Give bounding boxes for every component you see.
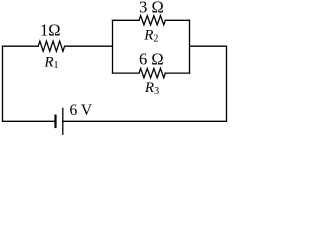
svg-text:6 V: 6 V <box>70 102 93 119</box>
svg-text:1Ω: 1Ω <box>40 20 61 39</box>
wire: top branch left segment <box>113 19 140 21</box>
wire: parallel box right vertical <box>189 20 191 73</box>
svg-text:R2: R2 <box>143 28 158 45</box>
svg-text:R3: R3 <box>144 80 159 97</box>
svg-text:3 Ω: 3 Ω <box>139 0 164 16</box>
svg-text:6 Ω: 6 Ω <box>139 50 164 69</box>
wire: bottom branch right segment <box>165 72 189 74</box>
resistor R3 <box>139 68 165 77</box>
wire: bottom rail right of battery <box>63 120 227 122</box>
wire: bottom branch left segment <box>113 72 140 74</box>
resistor R2 <box>139 16 165 25</box>
wire: top-left horizontal from left rail to R1 <box>3 45 39 47</box>
battery V1 long positive plate <box>62 108 64 134</box>
svg-text:R1: R1 <box>43 54 58 71</box>
wire: right rail vertical <box>226 46 228 121</box>
wire: R1 to parallel box left side <box>65 45 113 47</box>
battery V1 short negative plate <box>54 116 56 127</box>
wire: box right side to right rail <box>190 45 227 47</box>
wire: bottom rail left of battery <box>3 120 56 122</box>
wire: left rail vertical <box>2 46 4 121</box>
resistor R1 <box>38 41 64 51</box>
wire: top branch right segment <box>165 19 189 21</box>
wire: parallel box left vertical <box>112 20 114 73</box>
